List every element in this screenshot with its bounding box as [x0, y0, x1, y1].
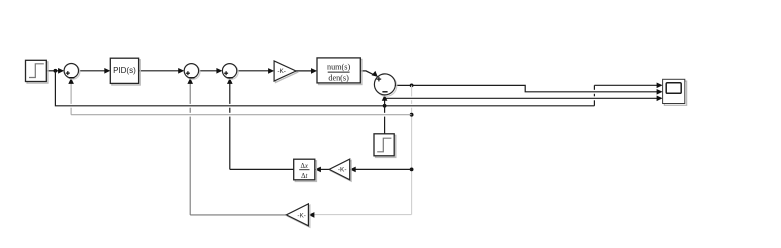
wire: transfer fcn to sum4 (diagonal) [360, 71, 375, 76]
wire: step1 output to sum1 [46, 70, 59, 72]
step block Step2 [374, 134, 396, 158]
wire: step2 up to sum4 [384, 99, 386, 134]
arrow into sum3 bottom [227, 78, 233, 84]
svg-text:Δx: Δx [300, 163, 307, 170]
PID controller block [110, 58, 140, 85]
wire: reference net down and across (y=105.8) to scope riser [55, 71, 657, 106]
sum block sum1 [64, 63, 80, 79]
wire: PID to sum2 [139, 70, 180, 72]
node A: junction after step1 [54, 69, 58, 73]
arrow into gain3 base [308, 212, 314, 218]
wire: sum1 feedback (light y=114.7) [71, 82, 412, 114]
svg-text:-K-: -K- [297, 213, 306, 220]
arrow into scope input1 [657, 83, 663, 89]
node D: junction riser/sum1-feedback [410, 113, 414, 117]
arrow into sum1 left [58, 68, 64, 74]
arrow into scope input3 [657, 96, 663, 102]
step block Step1 [26, 60, 48, 83]
wire: gain2 to derivative block [318, 168, 329, 170]
svg-text:den(s): den(s) [328, 74, 349, 83]
wire: bottom row y=214.6 light segment into gain3 [312, 214, 412, 216]
wire: step2 net to scope input3 (y=98.3) [385, 97, 658, 99]
gain block gain1 -K- [274, 61, 297, 83]
sum block sum3 [222, 64, 238, 80]
arrow into gain1 [268, 68, 274, 74]
node C: junction on sum4 output [410, 84, 414, 88]
arrow into sum3 left [216, 68, 222, 74]
wire: feedback riser x=411.6 (light) [411, 85, 413, 214]
svg-text:-K-: -K- [338, 167, 347, 174]
svg-text:-K-: -K- [277, 68, 286, 75]
derivative block dx/dt [294, 159, 317, 181]
sum block sum2 [184, 64, 200, 80]
arrow into derivative block right [315, 167, 321, 173]
sum block sum4 [374, 74, 396, 96]
arrow into scope input2 [657, 89, 663, 95]
node E: junction riser/derivative row [410, 168, 414, 172]
arrow into sum1 bottom [68, 78, 74, 84]
wire: sum3 to gain1 [237, 70, 269, 72]
gain block gain2 -K- (left pointing) [329, 159, 351, 181]
scope block [663, 79, 687, 105]
wire: sum4 output to scope input2 with jog [395, 85, 657, 91]
wire: gain1 to transfer fcn [296, 70, 312, 72]
arrow into transfer fcn [311, 68, 317, 74]
wire: sum1 to PID [79, 70, 106, 72]
transfer fcn block num(s)/den(s) [317, 58, 362, 85]
arrow into sum4 upper-left (diagonal) [372, 71, 378, 77]
wire: gain3 output left and up to sum2 [190, 82, 286, 215]
wire: derivative row y=169.4 right segment [353, 168, 412, 170]
arrow into sum2 bottom [187, 78, 193, 84]
arrow into gain2 base [350, 167, 356, 173]
wire: derivative block output left and up to sum3 [230, 82, 294, 169]
svg-text:Δt: Δt [301, 173, 308, 180]
node B: junction on reference net above step2 [383, 104, 387, 108]
svg-text:num(s): num(s) [327, 62, 350, 71]
arrow into sum4 bottom [382, 95, 388, 101]
arrowheads [58, 68, 663, 218]
wire: sum2 to sum3 [199, 70, 218, 72]
gain block gain3 -K- (left pointing) [286, 204, 309, 227]
arrow into PID [104, 68, 110, 74]
svg-text:PID(s): PID(s) [113, 66, 136, 75]
arrow into sum2 left [178, 68, 184, 74]
